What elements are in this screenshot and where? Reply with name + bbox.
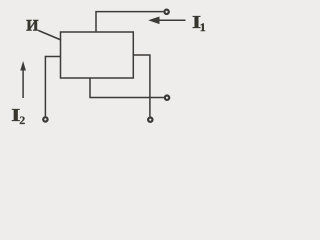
svg-text:1: 1 <box>200 20 206 34</box>
svg-text:2: 2 <box>19 113 25 127</box>
svg-text:И: И <box>26 18 39 35</box>
